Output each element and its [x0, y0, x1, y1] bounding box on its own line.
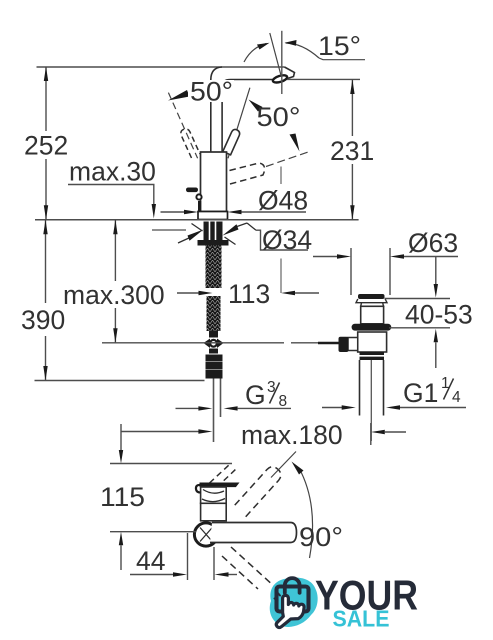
svg-text:50°: 50° — [257, 102, 301, 132]
svg-text:252: 252 — [24, 131, 68, 161]
svg-text:115: 115 — [100, 482, 145, 512]
drain: pop-up rod — [318, 342, 339, 345]
max.30 leader — [153, 185, 155, 207]
logo blob — [270, 578, 318, 627]
drain: lower body — [358, 332, 387, 352]
drain: upper body — [361, 306, 384, 324]
drain: cap dark bar — [358, 294, 385, 299]
drain: tailpipe — [359, 360, 361, 416]
50deg right leader arrow — [249, 100, 263, 112]
svg-text:G: G — [245, 380, 266, 410]
handle axis extension — [271, 452, 296, 478]
logo bag — [277, 587, 309, 612]
drain: o-ring flange — [352, 324, 392, 331]
svg-text:231: 231 — [330, 136, 374, 166]
svg-text:4: 4 — [452, 389, 461, 406]
dim Ø48 arrows — [161, 211, 187, 213]
svg-text:Ø63: Ø63 — [408, 228, 458, 258]
15deg leader underline — [319, 58, 365, 60]
svg-text:15°: 15° — [318, 31, 361, 61]
side view: body lower column — [201, 503, 227, 521]
dim 40-53 bottom arrow — [434, 329, 438, 343]
spout pipe left wall — [210, 80, 212, 153]
dim 231 ref line — [287, 78, 360, 80]
side view: handle bar (closed, dark) — [200, 482, 237, 487]
90deg arrowhead — [292, 462, 304, 475]
drain: side port — [348, 338, 358, 351]
spout tip — [283, 67, 295, 80]
spout inner bend — [222, 80, 230, 86]
svg-text:40-53: 40-53 — [405, 300, 473, 330]
dim 40-53 top line — [385, 298, 451, 300]
15deg left arc — [244, 44, 267, 63]
svg-text:max.300: max.300 — [63, 280, 165, 310]
side view: pull knob — [196, 485, 201, 493]
faucet body — [201, 152, 227, 212]
down lever axis — [266, 152, 310, 167]
spout underside — [231, 79, 285, 81]
15deg right arrowhead — [285, 40, 297, 46]
dim Ø34 diagonal arrows — [178, 238, 190, 244]
drain: cap brim — [356, 299, 387, 303]
50deg left label — [188, 77, 234, 107]
svg-text:G1: G1 — [403, 378, 438, 408]
dim 44 ext line right — [213, 547, 215, 580]
threaded shank upper — [206, 246, 222, 289]
dim G3/8 arrows — [176, 407, 200, 409]
drain: neck — [361, 303, 384, 307]
15deg right arc — [286, 43, 320, 58]
side view: dashed tilted handle — [210, 465, 237, 488]
dim 252 line — [45, 67, 47, 132]
svg-text:44: 44 — [136, 546, 165, 576]
vertical centerline above spout — [281, 31, 283, 94]
side view: body — [201, 487, 227, 503]
dim 390 bottom ref line — [35, 380, 205, 382]
hose reference line — [102, 342, 284, 344]
supply tail right — [220, 379, 222, 418]
dim max.180 left line — [121, 431, 199, 433]
aerator — [272, 74, 288, 84]
spout pipe right wall — [221, 86, 223, 153]
dim Ø34 left tail line — [152, 229, 186, 231]
dim max.300 line — [114, 220, 116, 281]
dim 44 ext line left — [187, 533, 189, 580]
drain: Ø63 dim arrows — [313, 256, 337, 258]
svg-text:Ø34: Ø34 — [262, 225, 312, 255]
dim 40-53 top arrow — [435, 257, 437, 286]
side view: dashed handle down — [222, 547, 286, 597]
dim max.180 right arrow — [371, 430, 385, 434]
down-position leader arrow — [290, 134, 300, 152]
dim G1 1/4 arrows — [322, 407, 342, 409]
logo hand — [276, 595, 304, 627]
side view: body dome arc — [203, 490, 224, 494]
side view: top ref line — [110, 463, 232, 465]
hose fitting — [209, 331, 218, 338]
dim 40-53 bottom line — [389, 327, 450, 329]
washer — [198, 240, 229, 246]
logo bag handle — [285, 578, 300, 593]
side view: ball joint — [194, 523, 217, 546]
side view: supply stub — [160, 531, 196, 533]
tilted 15-degree line — [270, 33, 282, 77]
15deg left arrowhead — [257, 43, 270, 50]
50deg left leader arrow — [168, 90, 190, 101]
svg-text:max.30: max.30 — [69, 157, 156, 187]
top reference line (spout height) — [37, 66, 285, 68]
threaded shank lower — [207, 296, 221, 331]
left dashed lever — [181, 129, 200, 158]
down dashed lever — [230, 163, 265, 184]
dim 44 arrows — [130, 574, 174, 576]
G3/8 connector block — [206, 355, 223, 379]
dim 115 bottom ref line — [110, 531, 160, 533]
svg-text:90°: 90° — [299, 522, 343, 552]
countertop line — [35, 219, 359, 221]
drain: pivot knob — [339, 337, 349, 352]
spout outer bend — [211, 67, 222, 80]
drain: bottom nut — [360, 352, 385, 360]
supply tail left — [213, 379, 215, 443]
left lever axis (dashed) — [168, 93, 197, 159]
drain: Ø63 extension lines — [350, 248, 352, 295]
drain: tailpipe centerline — [370, 360, 372, 441]
mounting locknut — [204, 222, 223, 241]
svg-text:8: 8 — [279, 393, 288, 410]
faucet base — [198, 212, 228, 220]
svg-text:max.180: max.180 — [241, 420, 343, 450]
max.30 underline — [68, 184, 155, 186]
right lever axis — [228, 88, 250, 159]
dim 390 line — [45, 220, 47, 303]
svg-text:Ø48: Ø48 — [258, 186, 308, 216]
dim 113 extension line — [280, 167, 282, 185]
dim 113 arrows — [177, 292, 199, 294]
pull rod knob — [186, 188, 198, 193]
90deg arc — [299, 468, 313, 558]
dim 231 line — [351, 79, 353, 136]
svg-text:50°: 50° — [190, 77, 233, 107]
svg-text:113: 113 — [228, 279, 270, 309]
side view: big dashed handle up — [234, 467, 281, 517]
solid lever — [223, 129, 240, 154]
dim Ø34 label box — [256, 230, 308, 250]
svg-text:SALE: SALE — [333, 606, 390, 632]
dim 115 line — [120, 424, 122, 451]
side view: spout tube — [210, 523, 297, 543]
svg-text:390: 390 — [21, 305, 65, 335]
